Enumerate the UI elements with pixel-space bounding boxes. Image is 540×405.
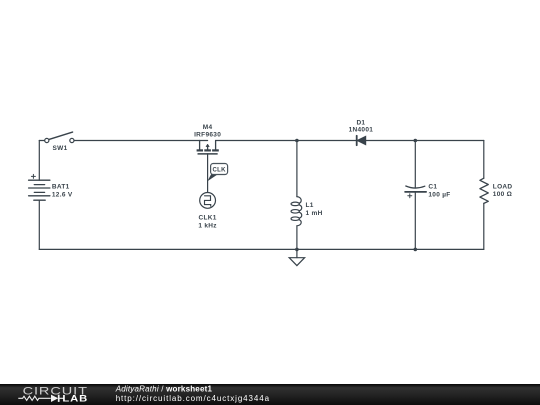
- ground: [289, 249, 304, 265]
- svg-text:1N4001: 1N4001: [349, 126, 374, 133]
- svg-text:1 kHz: 1 kHz: [198, 222, 217, 229]
- junction node top-L1: [295, 139, 299, 143]
- wire L1 top: [296, 141, 298, 197]
- svg-text:CLK: CLK: [212, 167, 226, 173]
- footer bar: [0, 384, 540, 405]
- resistor LOAD: [480, 178, 488, 203]
- svg-text:100 µF: 100 µF: [428, 191, 450, 198]
- switch SW1: [45, 132, 74, 142]
- svg-text:12.6 V: 12.6 V: [52, 192, 73, 199]
- wire top-left stub: [39, 140, 44, 142]
- CLK flag bubble: [207, 164, 227, 182]
- capacitor C1: [405, 186, 426, 198]
- junction node top-C1: [414, 139, 418, 143]
- wire M4 to diode: [216, 140, 356, 142]
- svg-text:M4: M4: [203, 124, 213, 131]
- wire C1 top: [414, 141, 416, 188]
- wire D1 to right: [366, 140, 484, 142]
- svg-text:LAB: LAB: [62, 394, 88, 404]
- svg-text:100 Ω: 100 Ω: [493, 191, 512, 198]
- svg-text:http://circuitlab.com/c4uctxjg: http://circuitlab.com/c4uctxjg4344a: [116, 394, 270, 403]
- wire BAT1 to bottom rail: [38, 200, 40, 249]
- logo mini resistor zigzag: [18, 396, 51, 400]
- wire right vertical bottom: [483, 203, 485, 249]
- inductor L1: [291, 197, 302, 226]
- clock source CLK1 circle: [200, 193, 216, 209]
- svg-text:AdityaRathi / worksheet1: AdityaRathi / worksheet1: [115, 384, 213, 393]
- wire bottom rail: [39, 248, 484, 250]
- battery BAT1: [29, 174, 50, 200]
- svg-text:BAT1: BAT1: [52, 184, 70, 191]
- junction node bottom-C1: [414, 248, 418, 252]
- svg-text:L1: L1: [306, 202, 314, 209]
- svg-text:CLK1: CLK1: [199, 214, 217, 221]
- wire right vertical top: [483, 141, 485, 179]
- logo mini diode: [51, 395, 58, 402]
- wire SW1 to M4: [74, 140, 208, 142]
- wire gate of M4 down to CLK1: [207, 154, 209, 193]
- wire L1 bottom: [296, 226, 298, 250]
- svg-text:1 mH: 1 mH: [306, 210, 323, 217]
- wire left vertical (SW1 to BAT1): [38, 141, 40, 181]
- svg-text:LOAD: LOAD: [493, 183, 513, 190]
- transistor M4 (IRF9630 P-MOSFET): [197, 141, 219, 154]
- svg-text:C1: C1: [428, 184, 437, 191]
- junction node bottom-L1: [295, 248, 299, 252]
- svg-text:IRF9630: IRF9630: [194, 132, 221, 139]
- svg-text:SW1: SW1: [53, 145, 68, 152]
- diode D1 (1N4001): [357, 136, 366, 145]
- wire C1 bottom: [414, 192, 416, 249]
